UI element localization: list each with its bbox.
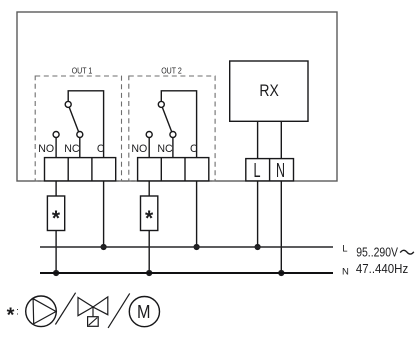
svg-text:L: L <box>254 160 261 182</box>
relay 1 moving arm <box>69 107 78 132</box>
svg-text:NO: NO <box>38 143 54 155</box>
svg-text:C: C <box>97 143 105 155</box>
wire NC2 to terminal <box>172 138 174 158</box>
relay 2 NC contact circle <box>170 132 176 138</box>
terminal block OUT2 <box>138 158 209 181</box>
wire RX pin L <box>257 121 259 158</box>
relay 2 moving arm <box>162 107 171 132</box>
wire L terminal to L rail <box>257 181 259 247</box>
junction C1 / L <box>101 244 107 250</box>
svg-text:C: C <box>190 143 198 155</box>
dashed box OUT1 <box>35 76 121 181</box>
relay 2 NO contact circle <box>146 132 152 138</box>
relay 2 pivot contact <box>158 101 164 107</box>
svg-text:*: * <box>145 207 154 230</box>
N supply rail <box>40 272 333 274</box>
svg-text:47..440Hz: 47..440Hz <box>356 261 408 276</box>
svg-text:NO: NO <box>131 143 147 155</box>
svg-text:N: N <box>342 266 349 277</box>
svg-text:NC: NC <box>157 143 173 155</box>
wire NO1 terminal to load 1 <box>55 181 57 196</box>
relay 1 NO contact circle <box>53 132 59 138</box>
wire NO1 to terminal <box>55 138 57 158</box>
wire C1 terminal to L rail <box>103 181 105 247</box>
wire load 2 to N rail <box>148 231 150 274</box>
valve symbol <box>78 297 108 326</box>
svg-text:OUT 1: OUT 1 <box>72 66 93 76</box>
wire N terminal to N rail <box>280 181 282 273</box>
junction N terminal / N rail <box>278 270 284 276</box>
terminal block L N <box>246 159 294 183</box>
L supply rail <box>40 246 333 248</box>
terminal block OUT1 <box>45 158 116 181</box>
separator slash 2 <box>108 293 130 328</box>
svg-text:*: * <box>7 304 15 326</box>
svg-text:N: N <box>276 160 285 182</box>
relay 1 NC contact circle <box>77 132 83 138</box>
load box 1 (*) <box>47 196 64 231</box>
relay 2 common bar (C link) <box>161 91 196 158</box>
wire NO2 terminal to load 2 <box>148 181 150 196</box>
svg-text:OUT 2: OUT 2 <box>161 66 182 76</box>
svg-text:NC: NC <box>64 143 80 155</box>
svg-text:95..290V: 95..290V <box>356 245 398 260</box>
svg-text:RX: RX <box>259 81 278 100</box>
wire NC1 to terminal <box>79 138 81 158</box>
svg-text:L: L <box>342 244 347 255</box>
wire load 1 to N rail <box>55 231 57 274</box>
load box 2 (*) <box>141 196 158 231</box>
AC tilde symbol <box>400 250 414 254</box>
junction L terminal / L rail <box>255 244 261 250</box>
svg-text:*: * <box>52 207 61 230</box>
junction C2 / L <box>194 244 200 250</box>
separator slash 1 <box>55 293 75 325</box>
svg-text::: : <box>16 307 19 318</box>
svg-text:M: M <box>137 302 151 322</box>
controller RX <box>230 61 308 121</box>
wire C2 terminal to L rail <box>196 181 198 247</box>
dashed box OUT2 <box>129 76 215 181</box>
pump symbol <box>26 296 57 327</box>
relay 1 pivot contact <box>65 101 71 107</box>
wire RX pin N <box>280 121 282 158</box>
relay 1 common bar (C link) <box>68 91 103 158</box>
enclosure outline <box>17 12 337 181</box>
wire NO2 to terminal <box>148 138 150 158</box>
motor symbol <box>129 297 159 327</box>
junction load 1 / N <box>53 270 59 276</box>
junction load 2 / N <box>146 270 152 276</box>
